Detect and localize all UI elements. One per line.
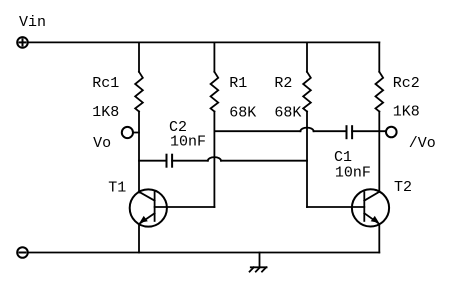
- svg-text:R1: R1: [229, 75, 247, 92]
- svg-text:1K8: 1K8: [92, 104, 119, 121]
- svg-text:1K8: 1K8: [393, 104, 420, 121]
- svg-text:/Vo: /Vo: [409, 135, 436, 152]
- svg-text:T2: T2: [394, 179, 412, 196]
- svg-text:Vo: Vo: [93, 135, 111, 152]
- svg-text:Rc1: Rc1: [92, 75, 119, 92]
- svg-text:Rc2: Rc2: [393, 75, 420, 92]
- svg-text:10nF: 10nF: [170, 134, 206, 151]
- svg-text:T1: T1: [108, 180, 126, 197]
- svg-text:C1: C1: [334, 149, 352, 166]
- svg-text:10nF: 10nF: [335, 165, 371, 182]
- svg-text:Vin: Vin: [19, 14, 46, 31]
- svg-text:68K: 68K: [229, 104, 256, 121]
- svg-text:68K: 68K: [274, 104, 301, 121]
- svg-text:R2: R2: [274, 75, 292, 92]
